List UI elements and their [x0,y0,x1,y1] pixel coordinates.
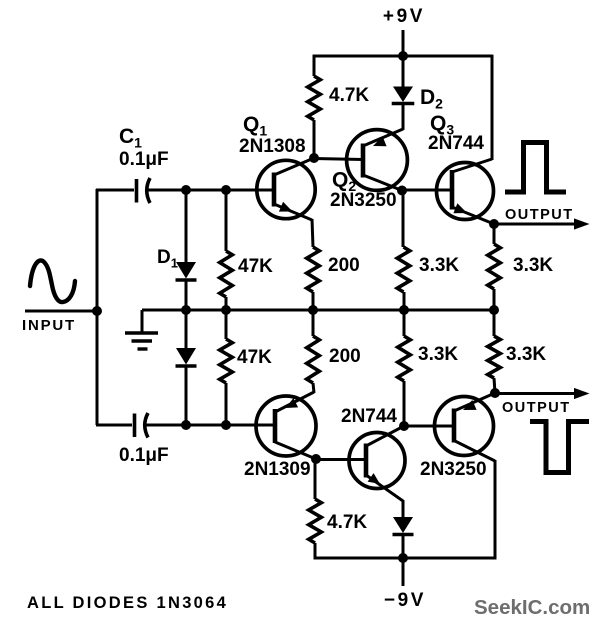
wire right 3.3K mid lead [493,289,496,310]
svg-text:2N3250: 2N3250 [330,190,397,211]
svg-text:200: 200 [328,255,360,276]
wire Q2 collector to Q3 base [402,189,452,192]
wire Q4 collector to Q5 base [316,458,366,461]
wire Q4 collector diagonal [275,442,316,459]
node bottom wire at D1b [181,420,191,430]
node bottom wire at 47K [221,420,231,430]
wire rail right drop to Q3 collector [491,55,494,160]
resistor 3.3K lower mid [398,336,411,381]
wire 3.3K lower bottom lead [403,381,406,426]
wire Q1 emitter drop [312,219,313,247]
node Q5 collector / Q6 base [399,421,409,431]
svg-text:4.7K: 4.7K [327,512,367,533]
wire C2 to 2N1309 base [145,424,275,427]
wire D2 cathode to Q2 emitter corner [402,104,405,131]
wire 47K top lead [225,190,228,251]
wire 47K bottom lead [225,383,228,425]
wire 4.7K bottom bottom lead [314,543,317,560]
capacitor C1 [135,179,139,203]
node top wire at D1 [181,185,191,195]
svg-text:2N3250: 2N3250 [420,459,487,480]
wire bottom rail [315,557,495,560]
wire D2 anode stub [402,56,405,87]
node Q4 collector [311,454,321,464]
wire input to C1 [96,189,134,192]
diode D1 [176,262,196,279]
wire Q6 collector drop [494,460,497,560]
wire Q6 collector diagonal [454,441,495,462]
wire 4.7K bottom top lead [314,459,317,499]
diode D1b lead [185,310,188,348]
transistor Q4 2N1309 [256,396,316,456]
arrow Q3 emitter (NPN) [453,203,467,213]
wire Q4 emitter diagonal [275,392,314,412]
wire Q1 emitter diagonal [274,204,312,220]
wire right 3.3K bottom lead [494,378,495,393]
arrow Q5 emitter (NPN) [368,473,380,484]
transistor Q2 2N3250 [347,130,408,191]
diode D2 [393,87,413,103]
waveform positive pulse [505,143,566,193]
wire 200 lower top lead [312,310,315,336]
wire D1 anode lead [185,190,188,262]
wire C1 to Q1 base [147,189,274,192]
wire Q1 collector diagonal [274,158,314,175]
svg-text:2N744: 2N744 [428,133,484,154]
svg-text:3.3K: 3.3K [513,255,553,276]
svg-text:200: 200 [329,346,361,367]
svg-text:0.1μF: 0.1μF [119,445,169,466]
wire OUTPUT bottom line [495,392,576,395]
wire D1b cathode lead [185,365,188,425]
svg-text:SeekIC.com: SeekIC.com [474,596,590,619]
wire 4.7K bottom lead [313,120,316,158]
svg-text:47K: 47K [237,347,272,368]
resistor 200 lower [307,336,320,383]
svg-text:47K: 47K [238,256,273,277]
wire input vertical [96,189,99,425]
wire ground stub [141,310,144,333]
ground symbol [125,333,158,349]
node Q1 collector [309,153,319,163]
wire OUTPUT top line [494,223,577,226]
transistor Q5 2N744 [349,433,405,489]
node output bottom [490,388,500,398]
waveform input sine [30,260,75,302]
diode D3 [393,517,413,533]
node top wire at 47K [221,185,231,195]
svg-text:OUTPUT: OUTPUT [502,400,571,416]
waveform negative pulse [530,422,589,473]
arrow Q4 emitter (PNP, points to base) [286,398,299,408]
wire 3.3K lower top lead [403,310,406,336]
transistor Q1 2N1308 [257,160,315,218]
wire ground bus [142,309,494,312]
node bus right 3.3K [489,305,499,315]
wire Q5 emitter diagonal [366,475,403,501]
wire top rail [313,55,492,58]
wire 4.7K top lead [313,55,316,76]
wire Q3 emitter diagonal [452,207,494,224]
node Q2 collector [397,186,407,196]
svg-text:2N1309: 2N1309 [244,459,311,480]
svg-text:3.3K: 3.3K [418,344,458,365]
resistor 47K upper [220,251,233,297]
node bus 200 [308,305,318,315]
wire D1 cathode lead [185,280,188,310]
resistor R8 4.7K bottom [309,499,322,543]
wire Q2 collector diagonal [363,175,402,191]
arrow Q2 emitter (PNP, points to base) [373,136,387,146]
wire INPUT lead [25,310,97,313]
wire 47K mid lead [225,297,228,339]
wire D3 cathode lead [402,535,405,558]
diode D1b (lower clamp diode) [176,348,196,365]
svg-text:ALL DIODES 1N3064: ALL DIODES 1N3064 [27,594,228,612]
node bus 47K [221,305,231,315]
svg-text:2N744: 2N744 [341,406,397,427]
wire 3.3K mid lead [403,292,406,310]
transistor Q6 2N3250 [435,397,494,456]
wire 200 lower bottom lead [313,383,314,393]
transistor Q3 2N744 [437,163,494,220]
wire input vertical to C2 [96,424,132,427]
arrow OUTPUT top [574,218,590,229]
node +9V rail junction [398,51,408,61]
arrow OUTPUT bottom [574,388,590,399]
resistor 3.3K upper right [488,244,501,289]
svg-text:4.7K: 4.7K [329,85,369,106]
svg-text:+9V: +9V [383,6,425,27]
wire +9V stub [402,30,405,56]
resistor 200 upper [307,247,320,292]
wire Q2 emitter diagonal [363,129,403,146]
resistor 3.3K upper mid [397,247,410,292]
node bus D1 [181,305,191,315]
resistor 47K lower [220,339,233,383]
wire Q6 emitter diagonal [454,393,495,411]
capacitor C2 0.1uF [133,414,137,438]
svg-text:2N1308: 2N1308 [239,136,306,157]
svg-text:3.3K: 3.3K [506,344,546,365]
arrow Q6 emitter (PNP, points to base) [463,400,477,410]
node -9V junction [398,553,408,563]
wire Q3 collector diagonal [452,159,492,172]
svg-text:INPUT: INPUT [22,317,76,334]
wire right 3.3K top lead [493,224,496,244]
svg-text:3.3K: 3.3K [419,255,459,276]
svg-text:−9V: −9V [384,590,426,611]
node bus 3.3K [399,305,409,315]
wire Q5 collector node to Q6 base [404,425,454,428]
node input junction [92,306,102,316]
wire right 3.3K lower top lead [493,310,496,336]
arrow Q1 emitter (NPN) [279,202,293,212]
resistor 3.3K lower right [488,336,501,378]
wire -9V stub [402,558,405,586]
resistor R1 4.7K [308,76,321,120]
wire Q1 collector to Q2 base [314,159,363,160]
wire 200 upper bottom lead [312,292,315,310]
wire Q5 collector diagonal [366,426,404,446]
wire Q5 emitter drop [402,500,405,517]
wire 3.3K top lead [402,190,405,247]
node output top [489,219,499,229]
svg-text:0.1μF: 0.1μF [119,149,169,170]
svg-text:OUTPUT: OUTPUT [505,207,574,223]
